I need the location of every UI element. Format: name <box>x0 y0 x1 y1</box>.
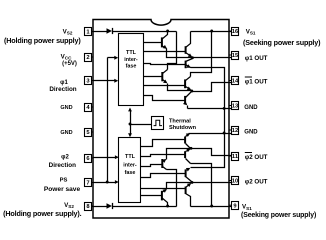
wire: VS1 to QC2 collector routing <box>191 164 212 207</box>
wire: Q1 collector to VS2d rail <box>162 32 168 40</box>
wire: QC emitter diagonal <box>186 87 191 90</box>
arrowhead into U1 (phi1) <box>114 79 118 83</box>
wire: VS2d rail top <box>113 31 177 33</box>
svg-text:(+5V): (+5V) <box>62 61 77 67</box>
wire: pin 6 phi2 direction to U2 <box>94 157 117 159</box>
arrowhead into U2 top <box>128 133 132 137</box>
transistor Q5 (small NPN, ch2 hold) <box>161 191 163 201</box>
wire: VS1 rail from pin 9 <box>191 206 232 208</box>
arrowhead into U1 bottom <box>128 108 132 112</box>
wire: QA2 emitter diagonal <box>186 184 191 188</box>
arrowhead: QC emitter <box>187 87 191 91</box>
TTL interface box U1 <box>119 34 144 106</box>
wire: thermal shutdown to TTL boxes <box>131 124 152 126</box>
wire: QB emitter diagonal <box>186 65 191 68</box>
junction: VS1 rail to QC collector <box>210 30 213 33</box>
arrowhead: QC2 emitter <box>186 149 190 153</box>
wire: QD2 collector to output node <box>186 144 191 149</box>
svg-text:TTL: TTL <box>126 50 137 56</box>
svg-text:φ2 OUT: φ2 OUT <box>245 179 268 186</box>
arrowhead: QA2 emitter <box>187 183 191 187</box>
wire: pin 8 VS2 to diode D2 <box>92 206 107 208</box>
pin 14 box <box>232 77 239 85</box>
svg-text:φ2 OUT: φ2 OUT <box>245 154 268 161</box>
pin 2 box <box>85 54 92 62</box>
wire: U1 output to QD base (W4) <box>144 96 186 101</box>
junction: ch2 output node <box>191 181 194 184</box>
svg-text:GND: GND <box>60 105 72 111</box>
wire: thermal shutdown vertical up to U1 <box>130 111 132 125</box>
svg-text:(Seeking power supply): (Seeking power supply) <box>241 212 316 219</box>
svg-text:(Holding power supply).: (Holding power supply). <box>3 209 82 218</box>
wire: GND link between halves <box>224 109 226 134</box>
wire: Q2 emitter to ch1b output node <box>168 84 192 91</box>
svg-text:2: 2 <box>86 55 89 61</box>
wire: U1 output to QC base (W3) <box>144 85 186 87</box>
arrowhead: QB emitter <box>186 64 190 68</box>
wire: pin 7 PS to junction <box>94 182 108 184</box>
pin 13 box <box>232 102 239 110</box>
pin 1 box <box>85 28 92 36</box>
wire: QA emitter diagonal <box>186 53 192 57</box>
wire: U2 output to QD2 base <box>141 140 186 147</box>
diode D2 <box>107 203 113 209</box>
transistor QB (output NPN, ch1 low side) <box>185 61 187 69</box>
wire: U1 output to QB base (W2) <box>144 64 186 65</box>
svg-text:10: 10 <box>232 179 238 185</box>
wire: U1 output to Q1 base <box>144 42 162 44</box>
wire: QD emitter diagonal <box>186 104 187 105</box>
transistor QA2 (output NPN, ch2 high side) <box>185 187 187 195</box>
arrowhead: QD2 emitter <box>186 133 190 137</box>
junction: ch1 output node <box>191 56 194 59</box>
svg-text:12: 12 <box>232 128 238 134</box>
wire: GND rail to pin 12 <box>189 133 232 135</box>
pin 3 box <box>85 77 92 85</box>
wire: output node to pin 10 <box>193 182 232 184</box>
svg-text:inter-: inter- <box>124 57 138 63</box>
arrowhead into U1 (PS) <box>114 56 118 60</box>
junction: ch1b output node <box>190 90 193 93</box>
wire: QB2 collector to output node <box>186 177 192 182</box>
arrowhead: Q6 emitter <box>162 159 166 163</box>
wire: U2 output to Q6 base <box>141 165 163 167</box>
wire: output node to pin 15 <box>193 57 232 59</box>
wire: U1 output to QA base (W1) <box>144 51 186 53</box>
svg-text:fase: fase <box>125 170 136 176</box>
wire: QB2 emitter to GND rail <box>191 134 225 168</box>
IC body outline with index notch <box>93 20 229 219</box>
wire: Q1 emitter diagonal <box>162 46 167 49</box>
wire: QD emitter to GND rail <box>187 106 189 109</box>
wire: VS1 to QC collector routing <box>191 32 212 77</box>
svg-text:Power save: Power save <box>44 186 81 193</box>
pin 6 box <box>85 155 92 163</box>
arrowhead: QA emitter <box>188 53 192 57</box>
junction: PS net <box>106 181 109 184</box>
wire: U2 output to QB2 base <box>141 174 186 178</box>
junction: VS1 rail to QC2 collector <box>210 205 213 208</box>
junction: ch2b output node <box>190 147 193 150</box>
wire: Q6 emitter diagonal <box>163 160 166 162</box>
transistor QB2 (output NPN, ch2 low side) <box>185 169 187 177</box>
arrowhead: Q5 emitter <box>163 189 167 193</box>
wire: pin 3 phi1 direction to U1 <box>94 80 116 82</box>
pin 5 box <box>85 129 92 137</box>
svg-text:fase: fase <box>126 64 137 70</box>
svg-text:16: 16 <box>232 29 239 35</box>
svg-text:φ1 OUT: φ1 OUT <box>245 55 268 62</box>
pin 15 box <box>232 52 239 60</box>
svg-text:φ2: φ2 <box>61 155 69 161</box>
wire: U1 output to Q2 base <box>144 76 163 78</box>
svg-text:inter-: inter- <box>123 163 137 169</box>
wire: GND rail to pin 13 <box>188 108 232 110</box>
arrowhead into U2 (PS) <box>115 180 119 184</box>
junction: Q1 collector on VS2d rail <box>166 30 169 33</box>
transistor Q6 (small NPN, ch2b hold) <box>161 159 163 168</box>
wire: Q6 emitter to ch2b output node <box>167 149 192 160</box>
pin 16 box <box>232 28 239 36</box>
diode D1 <box>107 28 113 34</box>
thermal shutdown box <box>152 117 164 130</box>
wire: QB2 emitter diagonal <box>186 169 190 171</box>
wire: VS1 rail from pin 16 <box>191 31 232 33</box>
wire: QD2 emitter diagonal <box>186 134 190 137</box>
junction: GND rail at QB emitter / GND link <box>223 107 226 110</box>
wire: QC collector diagonal <box>186 77 191 81</box>
arrowhead: QB2 emitter <box>186 168 190 172</box>
arrowhead: Q1 emitter <box>163 45 167 49</box>
wire: QC2 collector diagonal <box>186 159 191 164</box>
transistor Q2 (small NPN, ch1b hold) <box>161 72 163 81</box>
svg-text:7: 7 <box>86 181 89 187</box>
transistor Q1 (small NPN, ch1 hold) <box>161 37 163 47</box>
junction: thermal shutdown net <box>129 123 132 126</box>
thermal shutdown pulse symbol <box>154 120 162 125</box>
arrowhead: QD emitter <box>183 101 187 105</box>
wire: ch1b output node to pin 14 <box>192 83 232 92</box>
wire: ch2b output node to pin 11 <box>192 149 232 156</box>
wire: U2 output to QA2 base <box>141 188 186 190</box>
wire: Q5 collector to VS2d rail <box>162 198 168 207</box>
pin 12 box <box>232 127 239 135</box>
svg-text:TTL: TTL <box>125 154 136 160</box>
wire: U2 output to Q5 base <box>141 195 162 197</box>
wire: Q5 emitter to ch2 output node <box>167 183 193 189</box>
wire: VS2d rail bottom <box>113 206 177 208</box>
wire: PS horizontal into U1 <box>108 57 116 59</box>
transistor QD2 (output NPN, ch2b low side) <box>184 137 186 144</box>
wire: Q2 emitter diagonal <box>163 80 167 83</box>
arrowhead into U2 (phi2) <box>115 155 119 159</box>
wire: QB emitter to GND rail <box>191 68 225 109</box>
junction: Q5 collector on VS2d rail <box>166 205 169 208</box>
wire: Q6 collector to VS2d rise <box>163 167 167 170</box>
transistor QD (output NPN, ch1b low side) <box>184 96 186 105</box>
svg-text:GND: GND <box>60 130 72 136</box>
wire: U2 output to QC2 base <box>141 155 186 157</box>
wire: pin 1 VS2 to diode D1 <box>92 31 107 33</box>
wire: QA2 collector to VS1 rail <box>186 194 191 207</box>
wire: QB collector to output node <box>186 59 193 62</box>
svg-text:GND: GND <box>244 105 258 111</box>
TTL interface box U2 <box>119 138 141 203</box>
wire: QC2 emitter diagonal <box>186 150 190 152</box>
pin 10 box <box>232 177 239 185</box>
svg-text:15: 15 <box>232 53 239 59</box>
wire: QA collector to VS1 rail <box>186 32 191 48</box>
wire: Q1 emitter to ch1 output node <box>167 49 193 58</box>
arrowhead: Q2 emitter <box>163 80 167 84</box>
svg-text:Direction: Direction <box>49 162 76 169</box>
svg-text:PS: PS <box>60 178 68 184</box>
pin 9 box <box>232 202 239 210</box>
wire: VS2d drop to Q2 collector <box>168 32 177 70</box>
wire: QD collector to output node <box>186 92 192 98</box>
transistor QC2 (output NPN, ch2b high side) <box>184 151 186 158</box>
svg-text:14: 14 <box>232 79 239 85</box>
junction: GND rail at QB2 emitter / GND link <box>223 132 226 135</box>
svg-text:GND: GND <box>244 130 258 136</box>
wire: Q2 collector to VS2d drop <box>163 70 168 74</box>
svg-text:Direction: Direction <box>49 86 76 93</box>
svg-text:(Seeking power supply): (Seeking power supply) <box>243 38 321 47</box>
svg-text:φ1 OUT: φ1 OUT <box>245 79 268 86</box>
svg-text:(Holding power supply): (Holding power supply) <box>4 36 81 45</box>
wire: PS vertical to U1 <box>107 58 109 183</box>
svg-text:Shutdown: Shutdown <box>169 125 197 131</box>
pin 11 box <box>232 153 239 161</box>
wire: Q5 emitter diagonal <box>162 190 167 193</box>
wire: thermal shutdown vertical down to U2 <box>130 125 132 136</box>
svg-text:φ1: φ1 <box>60 80 68 86</box>
transistor QC (output NPN, ch1b high side) <box>184 79 186 88</box>
pin 8 box <box>85 203 92 211</box>
wire: PS junction to U2 <box>108 182 116 184</box>
transistor QA (output NPN, ch1 high side) <box>185 46 187 54</box>
svg-text:13: 13 <box>232 104 239 110</box>
pin 4 box <box>85 104 92 112</box>
svg-text:Thermal: Thermal <box>169 118 191 124</box>
pin 7 box <box>85 179 92 187</box>
wire: VS2d rise to Q6 collector <box>167 170 177 207</box>
svg-text:11: 11 <box>232 154 239 160</box>
